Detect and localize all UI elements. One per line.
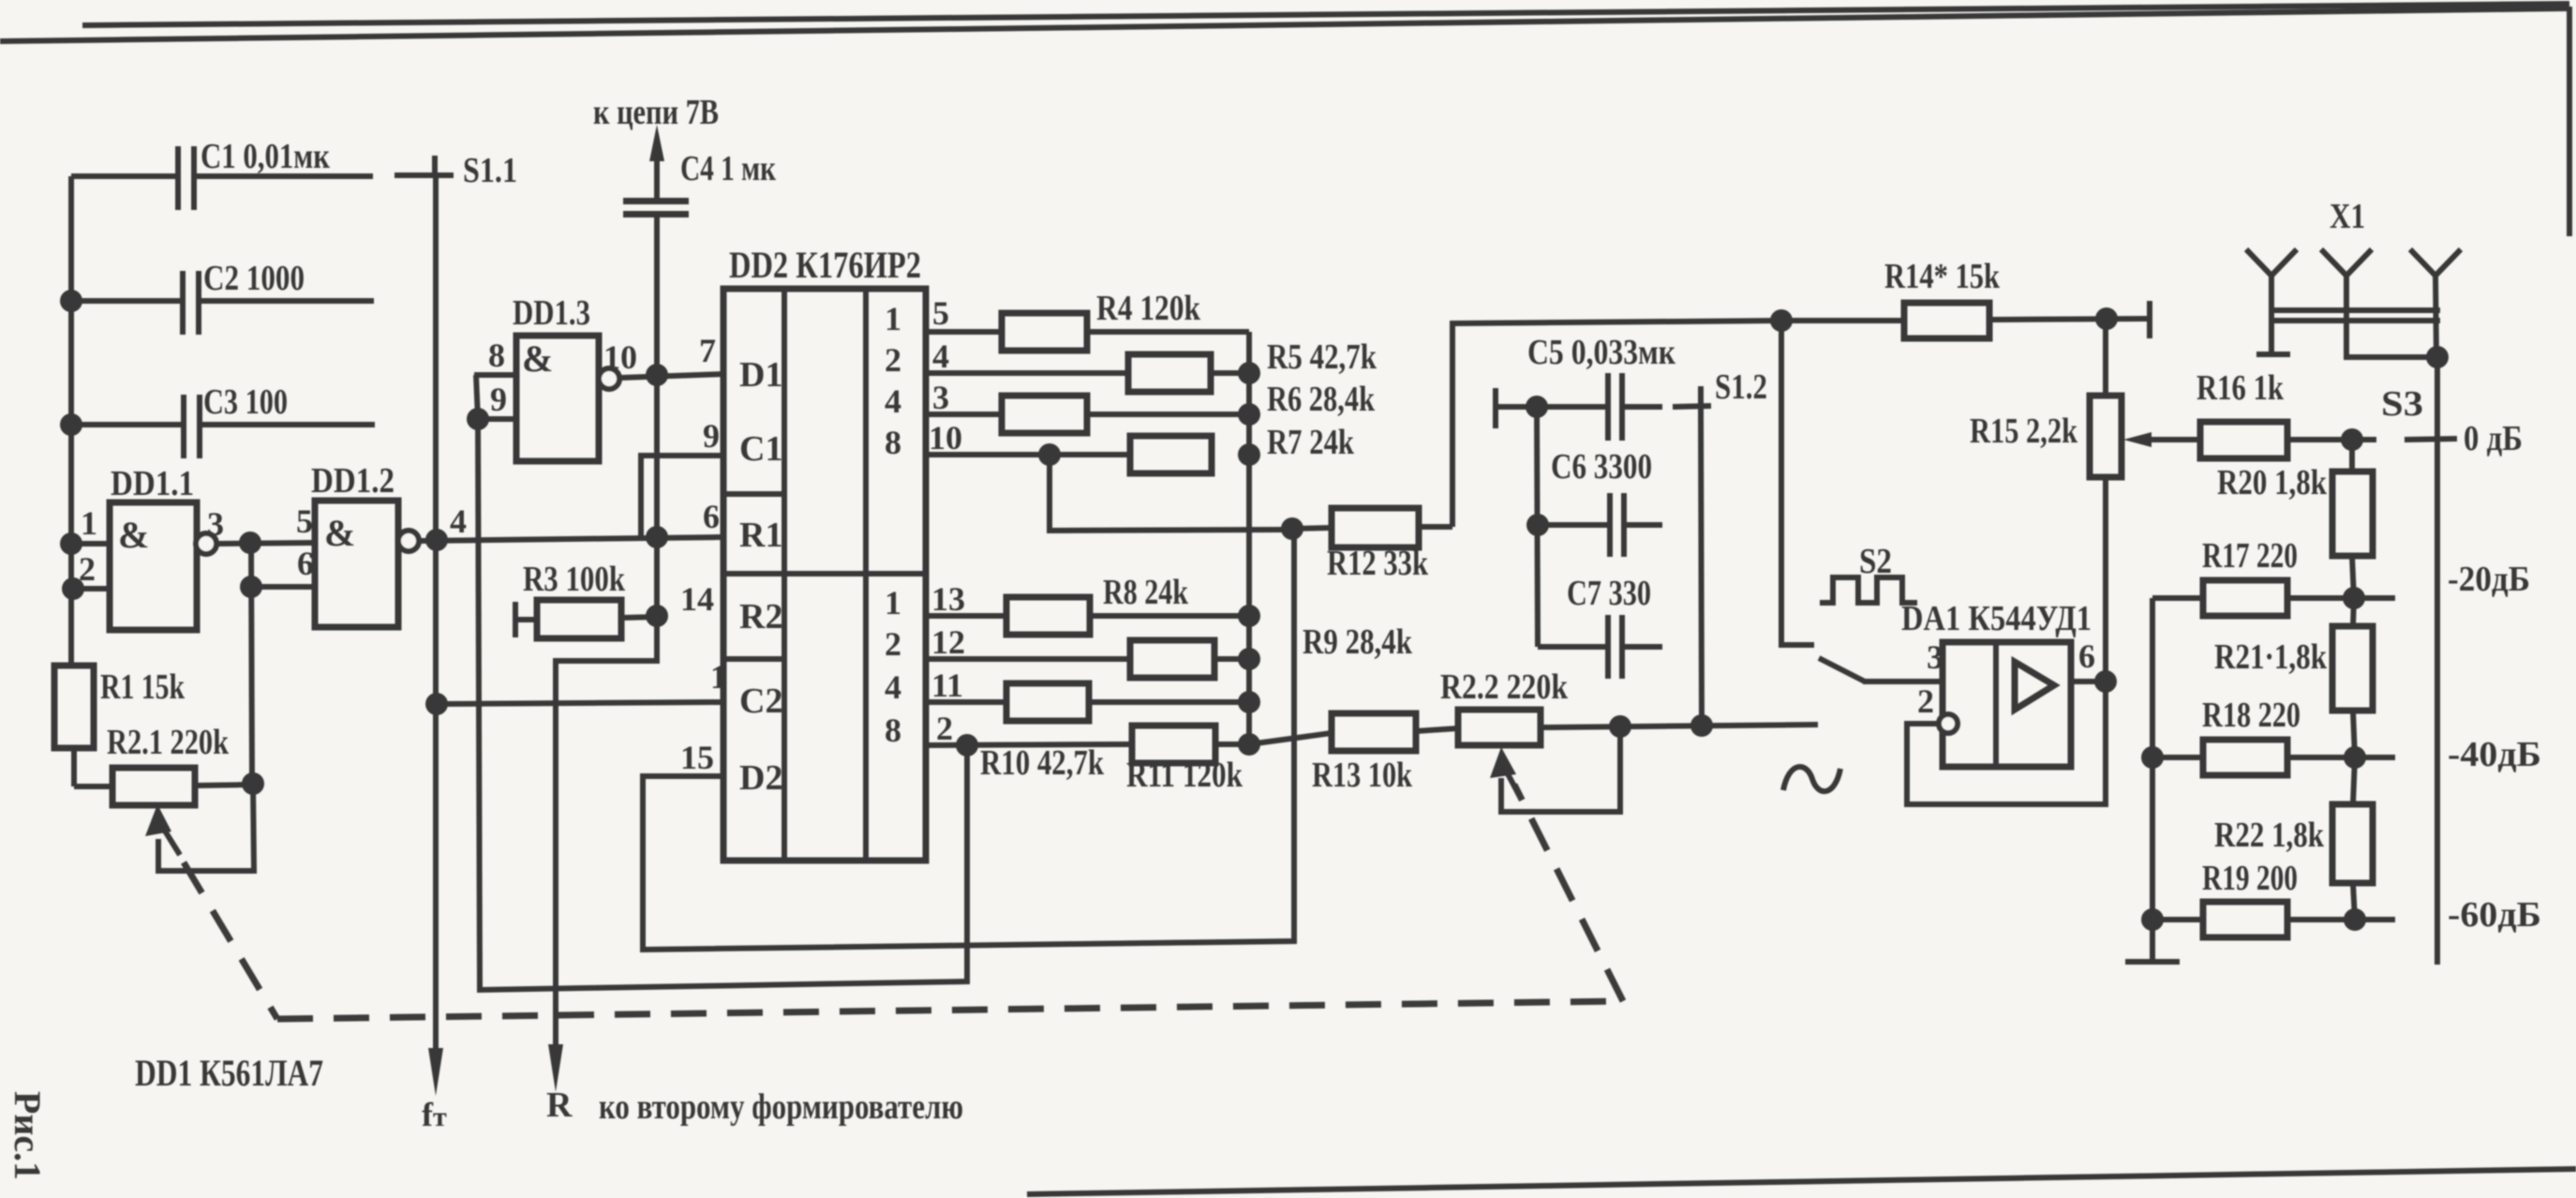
svg-text:R4 120k: R4 120k (1096, 289, 1201, 328)
capacitor C4 (623, 149, 776, 217)
pin 13 wire (926, 580, 1006, 618)
svg-text:C4 1 мк: C4 1 мк (680, 149, 776, 188)
svg-text:1: 1 (885, 584, 901, 621)
svg-text:R7 24k: R7 24k (1267, 423, 1355, 462)
gate DD1.1 (110, 464, 197, 630)
gate DD1.3 (513, 293, 599, 461)
node R7 right (1238, 443, 1260, 466)
capacitor C1 (71, 137, 373, 210)
node R9 right (1238, 648, 1260, 670)
pin 9 of DD1.3 (467, 381, 516, 430)
X1 bus double line (2269, 310, 2440, 321)
capacitor C7 (1538, 574, 1662, 679)
svg-text:6: 6 (703, 498, 720, 535)
node reset on pin14 wire (646, 605, 668, 627)
capacitor C2 (71, 259, 374, 335)
svg-text:ко второму формирователю: ко второму формирователю (599, 1087, 963, 1127)
svg-text:R9 28,4k: R9 28,4k (1303, 622, 1413, 662)
node C5 left (1526, 396, 1548, 418)
page right border (2567, 7, 2572, 236)
output bubble pin 3 of DD1.1 (196, 505, 315, 554)
node R2.1 right (242, 772, 264, 795)
potentiometer R2.2 (1440, 667, 1818, 745)
resistor R9 (1130, 622, 1413, 678)
-40dB tap (2355, 735, 2541, 774)
pin 5 wire (926, 294, 1002, 332)
wire R2.2 wiper tie (1501, 726, 1620, 812)
svg-text:C7 330: C7 330 (1567, 574, 1651, 613)
wire C5-C7 tie (1537, 407, 1538, 647)
node R14 left (1770, 309, 1793, 332)
op-amp DA1 (1901, 599, 2095, 767)
resistor R17 (2152, 536, 2354, 616)
resistor R21 (2214, 598, 2373, 757)
node R5 right (1238, 362, 1260, 384)
svg-text:1: 1 (81, 504, 97, 542)
svg-text:9: 9 (490, 381, 507, 418)
X1 fork 1 (2246, 249, 2297, 354)
node pin6 junction (240, 576, 262, 598)
X1 fork 2 (2321, 249, 2437, 357)
potentiometer R15 (1970, 319, 2122, 681)
node R11 right (1238, 733, 1260, 756)
wire R14 node to S2 (1781, 321, 1814, 645)
svg-text:D1: D1 (739, 355, 782, 395)
svg-text:6: 6 (2078, 637, 2095, 675)
resistor R16 (2196, 368, 2352, 458)
svg-text:3: 3 (207, 505, 224, 543)
svg-text:R11 120k: R11 120k (1126, 756, 1243, 795)
node -40dB (2344, 746, 2366, 769)
svg-text:DD1.3: DD1.3 (513, 293, 590, 333)
svg-text:4: 4 (885, 668, 901, 706)
svg-text:11: 11 (931, 666, 963, 704)
DD2 inside pin numbers upper (885, 300, 901, 461)
svg-text:R18 220: R18 220 (2202, 696, 2301, 735)
pin 8 of DD1.3 (474, 337, 516, 375)
pin 2 bubble of DA1 (1939, 714, 1958, 733)
svg-text:10: 10 (603, 338, 637, 376)
pin 4 wire (926, 337, 1128, 375)
resistor R22 (2214, 757, 2373, 920)
wire R2.1 wiper tie (158, 784, 254, 871)
svg-text:R19 200: R19 200 (2202, 859, 2298, 898)
0dB tap (2352, 419, 2523, 458)
IC DD2 К176ИР2 (723, 244, 926, 861)
node rail -40dB (2141, 746, 2164, 769)
R15 wiper arrow (2123, 432, 2200, 447)
node pin4 on ft rail (425, 529, 448, 551)
svg-text:R21·1,8k: R21·1,8k (2214, 637, 2328, 677)
page top border lower line (0, 8, 2569, 41)
capacitor C6 (1538, 447, 1662, 557)
svg-text:R3 100k: R3 100k (523, 560, 626, 599)
-60dB tap (2355, 895, 2541, 935)
svg-text:к цепи 7В: к цепи 7В (593, 93, 719, 132)
svg-text:-40дБ: -40дБ (2448, 735, 2541, 774)
pin 2 lower wire (926, 710, 1132, 747)
svg-text:C1 0,01мк: C1 0,01мк (201, 137, 330, 176)
resistor R10 (980, 683, 1249, 783)
dashed gang link diagonal right (1514, 785, 1623, 1001)
gate DD1.2 (296, 461, 398, 627)
switch S2 blade (1819, 658, 1865, 681)
svg-text:&: & (118, 514, 149, 556)
node reset on pin6 wire (646, 526, 668, 548)
wire pin10 node to R12 (1050, 455, 1292, 531)
DD2 inside pin numbers lower (885, 584, 901, 749)
svg-text:R13 10k: R13 10k (1312, 756, 1413, 795)
switch S3 rail (2381, 357, 2437, 965)
resistor R7 (1130, 423, 1355, 473)
resistor R14 (1781, 257, 2150, 338)
resistor R11 (1126, 726, 1249, 795)
svg-text:R14* 15k: R14* 15k (1884, 257, 2001, 296)
node R6 right (1238, 403, 1260, 426)
dashed gang link horizontal (277, 1001, 1623, 1019)
node rail-C2 (60, 290, 82, 312)
svg-text:R10 42,7k: R10 42,7k (980, 743, 1105, 783)
svg-text:R2.2 220k: R2.2 220k (1440, 667, 1569, 707)
R arrow (546, 1044, 573, 1125)
svg-text:13: 13 (931, 580, 965, 618)
svg-text:C6 3300: C6 3300 (1551, 447, 1652, 487)
label DD1 chip (135, 1052, 323, 1094)
svg-text:Рис.1: Рис.1 (7, 1091, 49, 1180)
node R14 right (2095, 307, 2118, 330)
svg-text:0 дБ: 0 дБ (2464, 419, 2523, 458)
svg-text:8: 8 (885, 711, 901, 749)
pin 10 wire (926, 419, 1130, 466)
wire DA1 feedback loop (1907, 681, 2106, 804)
pin 9 wire C1 (641, 417, 723, 538)
pin 3 wire (926, 379, 1002, 416)
resistor R8 (1006, 573, 1249, 635)
svg-text:6: 6 (297, 545, 314, 582)
svg-text:15: 15 (680, 739, 714, 776)
dashed gang link diagonal left (184, 862, 277, 1019)
page bottom edge line (1027, 1169, 2576, 1194)
output bubble pin 10 of DD1.3 (599, 338, 723, 389)
switch S1.1 (395, 151, 517, 190)
output bubble pin 4 of DD1.2 (398, 502, 723, 551)
svg-text:9: 9 (703, 417, 720, 455)
label to second shaper (599, 1087, 963, 1127)
svg-text:3: 3 (1927, 638, 1943, 676)
svg-text:&: & (324, 512, 355, 554)
svg-text:C2: C2 (739, 681, 782, 721)
wire S1.2 rail (1701, 407, 1702, 726)
node rail -60dB (2141, 908, 2164, 931)
switch S1.2 (1673, 367, 1767, 407)
node R10 right (1238, 691, 1260, 713)
svg-text:C2 1000: C2 1000 (203, 259, 305, 298)
-20dB tap (2354, 560, 2530, 599)
svg-text:R1 15k: R1 15k (100, 667, 186, 707)
label Рис.1 (7, 1091, 49, 1180)
svg-text:3: 3 (932, 379, 949, 416)
potentiometer R2.1 (74, 723, 253, 805)
svg-text:DD1.1: DD1.1 (111, 464, 194, 503)
svg-text:C5 0,033мк: C5 0,033мк (1527, 333, 1675, 372)
svg-text:R12 33k: R12 33k (1327, 544, 1429, 583)
svg-text:R22 1,8k: R22 1,8k (2214, 816, 2325, 855)
pin 15 wire D2 feedback (643, 529, 1294, 950)
wire C4 reset rail down (556, 217, 657, 1048)
wire R11 node to R13 (1249, 733, 1332, 744)
resistor R1 (54, 589, 186, 786)
wire pin 6 of DD1.2 (251, 545, 315, 587)
node S1.2 rail bottom (1690, 714, 1713, 737)
svg-text:8: 8 (885, 424, 901, 461)
svg-text:C1: C1 (739, 429, 782, 469)
resistor R20 (2217, 440, 2373, 598)
resistor R6 (1002, 380, 1376, 433)
svg-text:S1.2: S1.2 (1715, 367, 1767, 407)
resistor R4 (1002, 289, 1249, 351)
svg-text:D2: D2 (739, 758, 782, 798)
svg-text:2: 2 (936, 710, 953, 747)
node feedback tap (956, 734, 978, 756)
pin 1 of DD1.1 (60, 504, 110, 555)
svg-text:10: 10 (929, 419, 962, 457)
R2.2 wiper arrow (1490, 747, 1519, 795)
node R8 right (1238, 605, 1260, 627)
node C4 line on D1 wire (646, 364, 668, 386)
node pin6 output (2094, 670, 2117, 693)
wire pins 8-9 tie to feedback node (476, 375, 967, 990)
svg-text:R1: R1 (739, 516, 782, 555)
wire R12 to R14 node (1452, 321, 1781, 527)
connector X1 label (2330, 197, 2365, 236)
terminal T-bar right of R14 (2147, 301, 2152, 338)
wire summing vertical (1246, 332, 1252, 745)
svg-text:S3: S3 (2381, 384, 2423, 424)
resistor R5 (1128, 337, 1377, 392)
wire ft rail (433, 175, 439, 1052)
wire attenuator left rail (2150, 598, 2155, 959)
svg-text:R6 28,4k: R6 28,4k (1267, 380, 1376, 419)
svg-text:X1: X1 (2330, 197, 2365, 236)
svg-text:R17 220: R17 220 (2202, 536, 2298, 576)
svg-text:1: 1 (710, 658, 727, 696)
wire blade to DA1 pin3 (1863, 679, 1943, 684)
capacitor C3 (71, 382, 375, 458)
page top border upper line (82, 4, 2569, 25)
svg-text:R8 24k: R8 24k (1103, 573, 1189, 612)
pin 12 wire (926, 623, 1130, 661)
node -60dB (2344, 908, 2366, 931)
pin 2 of DD1.1 (62, 550, 110, 600)
node 0dB (2341, 428, 2363, 451)
svg-text:7: 7 (699, 332, 716, 369)
ft arrow (422, 1048, 447, 1133)
R2.1 wiper arrow (145, 804, 180, 855)
resistor R18 (2152, 696, 2355, 775)
svg-text:R2.1 220k: R2.1 220k (107, 723, 230, 762)
node -20dB (2343, 587, 2365, 609)
pin 1 wire C2 (425, 658, 727, 715)
wire pin 6 of DA1 (2071, 679, 2106, 684)
svg-text:R5 42,7k: R5 42,7k (1267, 337, 1377, 377)
node rail-C3 (60, 413, 82, 436)
svg-text:DD1.2: DD1.2 (311, 461, 395, 501)
pin 6 label (703, 498, 720, 535)
X1 fork 3 (2410, 249, 2461, 357)
node R12 input (1281, 517, 1303, 540)
svg-text:4: 4 (450, 502, 467, 540)
svg-text:4: 4 (932, 337, 949, 375)
power arrow к цепи 7В (593, 93, 719, 198)
node C6 left (1526, 514, 1549, 536)
resistor R19 (2152, 859, 2355, 937)
svg-text:&: & (522, 337, 553, 380)
svg-text:R: R (546, 1086, 573, 1125)
resistor R3 (515, 560, 657, 638)
svg-text:2: 2 (885, 625, 901, 663)
svg-text:2: 2 (1917, 682, 1934, 720)
node X1 to S3 (2426, 346, 2449, 368)
S2 square wave symbol (1820, 542, 1917, 603)
node pin3 junction (239, 532, 261, 554)
svg-text:14: 14 (680, 580, 714, 618)
svg-text:5: 5 (296, 502, 313, 540)
sine symbol (1783, 767, 1840, 791)
pin 11 wire (926, 666, 1006, 704)
svg-text:1: 1 (885, 300, 901, 337)
wire left rail (68, 176, 74, 666)
wire junction down to R2.1 (251, 543, 252, 784)
resistor R13 (1312, 713, 1458, 795)
svg-text:4: 4 (885, 382, 901, 420)
svg-text:-60дБ: -60дБ (2448, 895, 2541, 935)
svg-text:DA1 К544УД1: DA1 К544УД1 (1901, 599, 2092, 638)
svg-text:-20дБ: -20дБ (2448, 560, 2530, 599)
svg-text:2: 2 (885, 341, 901, 379)
svg-text:S2: S2 (1859, 542, 1892, 581)
svg-text:т: т (433, 1101, 447, 1132)
svg-text:S1.1: S1.1 (463, 151, 517, 190)
ground (2125, 959, 2180, 965)
svg-text:DD1 К561ЛА7: DD1 К561ЛА7 (135, 1052, 323, 1094)
pin 7 label (699, 332, 716, 369)
svg-text:8: 8 (488, 337, 505, 374)
capacitor C5 (1496, 333, 1675, 441)
svg-text:12: 12 (931, 623, 965, 661)
svg-text:DD2 К176ИР2: DD2 К176ИР2 (729, 244, 921, 286)
svg-text:R15 2,2k: R15 2,2k (1970, 412, 2078, 451)
node R2.2 right (1609, 715, 1631, 738)
svg-text:5: 5 (932, 294, 949, 332)
pin 14 label (680, 580, 714, 618)
svg-text:C3 100: C3 100 (203, 382, 288, 422)
svg-text:R16 1k: R16 1k (2196, 368, 2285, 408)
svg-text:R2: R2 (739, 597, 782, 636)
resistor R12 (1292, 508, 1452, 583)
svg-text:R20 1,8k: R20 1,8k (2217, 463, 2328, 502)
